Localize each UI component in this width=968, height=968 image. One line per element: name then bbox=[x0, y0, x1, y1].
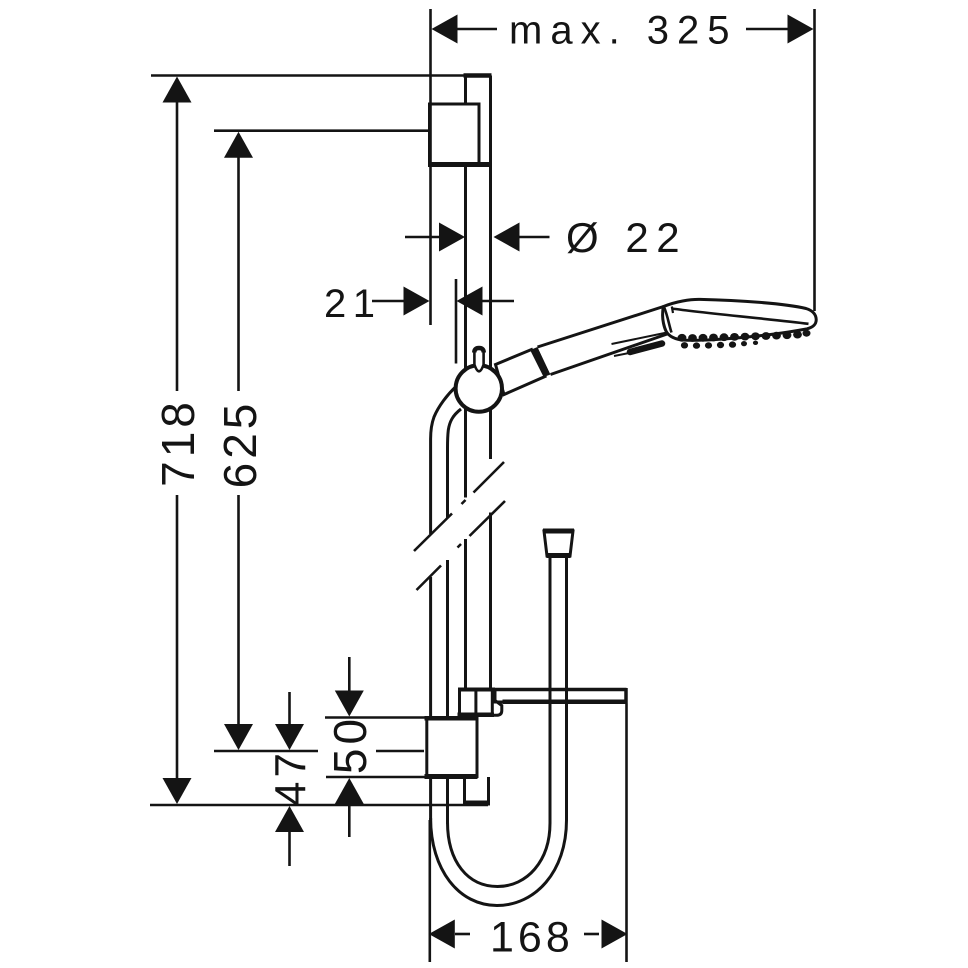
arrow 21 left bbox=[404, 287, 430, 316]
arrow 625 top bbox=[224, 132, 253, 158]
dim max325 line bbox=[457, 28, 497, 31]
soap dish bar bbox=[494, 688, 627, 704]
wire rail left line bbox=[465, 76, 466, 803]
holder ball bbox=[456, 365, 502, 411]
arrow 47 top bbox=[275, 724, 304, 750]
wire rail right line bbox=[489, 76, 491, 803]
arrow 168 right bbox=[602, 920, 628, 949]
svg-text:50: 50 bbox=[324, 715, 376, 774]
arrow max325 right bbox=[788, 15, 814, 44]
arrow 50 top bbox=[335, 691, 364, 717]
handle select button bbox=[630, 344, 662, 353]
arrowheads bbox=[163, 15, 814, 949]
dim 625 line bbox=[237, 155, 240, 391]
dim 718 top reference line bbox=[151, 74, 464, 77]
dim 625 top reference line bbox=[214, 129, 428, 132]
arrow 625 bottom bbox=[224, 724, 253, 750]
svg-text:21: 21 bbox=[324, 282, 382, 326]
svg-text:max. 325: max. 325 bbox=[509, 9, 738, 53]
shower hose bottom U-bend bbox=[431, 557, 567, 906]
holder pin bbox=[474, 348, 483, 371]
rail top cap bbox=[464, 73, 492, 78]
dim 50 top reference line bbox=[325, 716, 425, 719]
holder edge line bbox=[455, 279, 458, 364]
top wall bracket bbox=[428, 104, 492, 165]
dim 47 arrow tails bbox=[288, 692, 291, 727]
bar left hook elbow bbox=[494, 690, 502, 715]
break mark diagonal 2 bbox=[417, 501, 506, 590]
arrow 50 bottom bbox=[335, 778, 364, 804]
shower hose middle section (below break) bbox=[431, 560, 448, 824]
svg-text:718: 718 bbox=[152, 398, 204, 487]
dim 625/47 reference line y=751 bbox=[214, 750, 318, 753]
arrow Ø22 left bbox=[439, 223, 465, 252]
svg-text:625: 625 bbox=[214, 400, 266, 489]
dim 168 line bbox=[455, 933, 470, 936]
handle grip band bbox=[532, 347, 551, 377]
arrow 718 top bbox=[163, 77, 192, 103]
svg-text:168: 168 bbox=[490, 914, 574, 962]
arrow 168 left bbox=[429, 920, 455, 949]
dim 21 tails bbox=[372, 300, 405, 303]
svg-text:Ø 22: Ø 22 bbox=[566, 214, 687, 261]
hand shower handle cone bbox=[496, 350, 546, 395]
dim 718 line bbox=[176, 100, 179, 391]
rail bottom cap bbox=[463, 801, 490, 806]
dim max325 left extension bbox=[429, 9, 432, 325]
arrow 718 bottom bbox=[163, 778, 192, 804]
spray nozzles bbox=[678, 330, 811, 349]
bottom wall bracket bbox=[425, 718, 478, 776]
dim 168 right extension bbox=[625, 704, 628, 963]
arrow max325 left bbox=[432, 15, 458, 44]
shower hose upper section bbox=[431, 387, 461, 535]
dim bottom reference line y=805 bbox=[150, 804, 488, 807]
hand shower handle bbox=[538, 307, 672, 375]
slider block on rail bbox=[458, 689, 496, 715]
handle seam line bbox=[612, 333, 668, 345]
dim Ø22 tails bbox=[405, 236, 441, 239]
shower head bbox=[663, 299, 817, 340]
break mark diagonal 1 bbox=[414, 462, 504, 551]
svg-text:47: 47 bbox=[267, 749, 316, 806]
arrow 21 right bbox=[457, 287, 483, 316]
head joint line bbox=[664, 307, 672, 333]
handle lower seam bbox=[614, 350, 647, 357]
arrow 47 bottom bbox=[275, 806, 304, 832]
dim max325 right extension bbox=[813, 9, 816, 311]
dim 50 arrow tails bbox=[348, 657, 351, 693]
dim 50 bottom reference line bbox=[326, 776, 425, 779]
arrow Ø22 right bbox=[494, 223, 520, 252]
dim 168 left extension bbox=[428, 820, 431, 962]
hose end cone fitting bbox=[543, 531, 574, 556]
